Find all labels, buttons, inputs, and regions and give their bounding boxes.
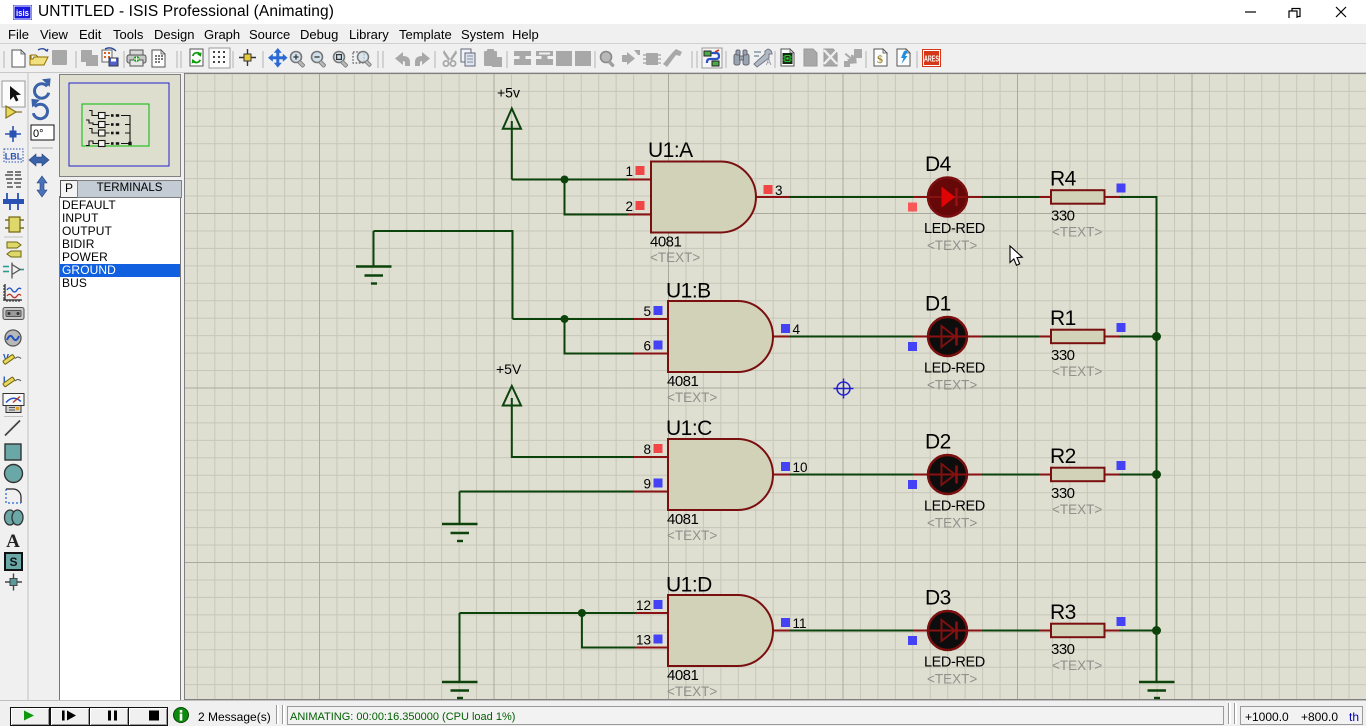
svg-text:<TEXT>: <TEXT> — [667, 684, 717, 699]
resistor R4 — [1039, 168, 1119, 240]
svg-text:D1: D1 — [925, 293, 951, 316]
wire D4 to R4 — [982, 196, 1039, 198]
svg-text:D4: D4 — [925, 153, 952, 176]
svg-text:R4: R4 — [1050, 168, 1077, 191]
svg-text:10: 10 — [793, 460, 808, 475]
wire row1 node to pin1 — [512, 179, 628, 181]
left tool column — [0, 73, 28, 700]
svg-text:2: 2 — [625, 199, 633, 214]
LED D3 (off) — [913, 587, 985, 687]
pin 1 label + state — [625, 164, 644, 179]
svg-text:+5v: +5v — [497, 85, 520, 101]
svg-text:U1:C: U1:C — [666, 417, 712, 440]
pin 5 label + state — [643, 304, 662, 319]
svg-text:isis: isis — [16, 8, 29, 18]
resistor R1 — [1039, 307, 1119, 379]
power terminal +5V (row 3) — [496, 361, 522, 406]
AND gate U1:D (4081) — [635, 574, 790, 700]
AND gate U1:B (4081) — [634, 280, 790, 406]
svg-text:330: 330 — [1051, 485, 1075, 502]
junction node R1/bus — [1152, 332, 1161, 341]
wire D1 to R1 — [982, 336, 1039, 338]
LED D1 (off) — [913, 293, 985, 393]
svg-text:<TEXT>: <TEXT> — [1052, 225, 1102, 240]
svg-text:A: A — [6, 531, 20, 552]
wire +5V to pin8 — [512, 406, 634, 458]
svg-text:330: 330 — [1051, 641, 1075, 658]
svg-text:U1:A: U1:A — [648, 139, 693, 162]
svg-text:330: 330 — [1051, 208, 1075, 225]
status bar — [0, 700, 1366, 726]
svg-text:12: 12 — [636, 598, 651, 613]
svg-text:LED-RED: LED-RED — [924, 361, 985, 377]
top toolbar — [0, 44, 1366, 73]
svg-text:LED-RED: LED-RED — [924, 499, 985, 515]
ground (row 3) — [442, 492, 478, 542]
svg-text:LBL: LBL — [5, 152, 23, 162]
svg-text:6: 6 — [643, 339, 651, 354]
ground (row 1) — [356, 231, 392, 284]
svg-text:U1:D: U1:D — [666, 574, 712, 597]
svg-text:S: S — [9, 555, 17, 569]
svg-text:8: 8 — [643, 442, 651, 457]
svg-text:4: 4 — [793, 322, 801, 337]
power terminal +5v (row 1) — [497, 85, 521, 129]
wire D3 to R3 — [982, 630, 1039, 632]
svg-text:3: 3 — [775, 183, 783, 198]
wire R3 to bus — [1119, 630, 1157, 632]
mouse cursor — [1010, 246, 1022, 265]
svg-text:1: 1 — [625, 164, 633, 179]
D3 anode state square — [908, 636, 917, 645]
wire +5v down to row1 node — [511, 129, 513, 180]
svg-text:4081: 4081 — [667, 667, 699, 684]
svg-text:R3: R3 — [1050, 601, 1076, 624]
svg-text:+5V: +5V — [496, 361, 522, 377]
D1 anode state square — [908, 342, 917, 351]
svg-text:R1: R1 — [1050, 307, 1076, 330]
svg-text:<TEXT>: <TEXT> — [927, 378, 977, 393]
junction node row2 — [561, 315, 569, 323]
junction node row4 — [578, 609, 586, 617]
ground (bus bottom right) — [1139, 682, 1175, 698]
wire R2 to bus — [1119, 474, 1157, 476]
resistor R2 — [1039, 445, 1119, 517]
sheet origin marker — [834, 379, 854, 399]
svg-text:<TEXT>: <TEXT> — [1052, 658, 1102, 673]
svg-text:<TEXT>: <TEXT> — [1052, 364, 1102, 379]
window title bar — [0, 0, 1366, 24]
pin 4 label + state — [781, 322, 801, 337]
AND gate U1:A (4081) — [628, 139, 790, 265]
svg-text:ARES: ARES — [924, 55, 939, 64]
D2 anode state square — [908, 480, 917, 489]
svg-text:<TEXT>: <TEXT> — [650, 250, 700, 265]
svg-text:<TEXT>: <TEXT> — [667, 390, 717, 405]
wire ground row1 to U1:B inputs — [374, 231, 513, 319]
right vertical bus wire — [1156, 196, 1158, 682]
junction node R3/bus — [1152, 626, 1161, 635]
svg-text:D3: D3 — [925, 587, 951, 610]
svg-text:D2: D2 — [925, 431, 951, 454]
wire row1 branch to pin2 — [565, 180, 629, 215]
svg-text:4081: 4081 — [650, 234, 682, 251]
pin 9 label + state — [643, 477, 662, 492]
object selector header + list — [59, 196, 181, 702]
pin 8 label + state — [643, 442, 662, 457]
pin 11 label + state — [781, 616, 807, 631]
svg-text:11: 11 — [793, 616, 807, 631]
wire U1:D output to D3 — [788, 630, 913, 632]
svg-text:<TEXT>: <TEXT> — [927, 238, 977, 253]
LED D2 (off) — [913, 431, 985, 531]
pin 6 label + state — [643, 339, 662, 354]
wire R4 to right bus — [1119, 196, 1158, 198]
svg-text:4081: 4081 — [667, 373, 699, 390]
junction node row1 — [561, 176, 569, 184]
R2 state square — [1117, 461, 1126, 470]
svg-text:5: 5 — [643, 304, 651, 319]
wire R1 to bus — [1119, 336, 1157, 338]
pin 3 label + state — [764, 183, 783, 198]
junction node R2/bus — [1152, 470, 1161, 479]
wire row4 branch to pin13 — [582, 613, 635, 648]
ground (row 4) — [442, 613, 478, 698]
svg-text:330: 330 — [1051, 347, 1075, 364]
pin 2 label + state — [625, 199, 644, 214]
R3 state square — [1117, 617, 1126, 626]
pin 12 label + state — [636, 598, 663, 613]
svg-text:<TEXT>: <TEXT> — [1052, 502, 1102, 517]
svg-text:0°: 0° — [33, 128, 44, 140]
svg-text:4081: 4081 — [667, 511, 699, 528]
svg-text:<TEXT>: <TEXT> — [927, 672, 977, 687]
svg-text:LED-RED: LED-RED — [924, 221, 985, 237]
pin 10 label + state — [781, 460, 808, 475]
AND gate U1:C (4081) — [634, 417, 790, 543]
wire to pin5 — [513, 318, 635, 320]
pin 13 label + state — [636, 633, 663, 648]
svg-text:LED-RED: LED-RED — [924, 655, 985, 671]
D4 anode state square — [908, 203, 917, 212]
R4 state square — [1117, 184, 1126, 193]
svg-text:$: $ — [877, 52, 883, 66]
svg-text:<TEXT>: <TEXT> — [927, 516, 977, 531]
wire D2 to R2 — [982, 474, 1039, 476]
wire ground row4 to pin12 — [460, 612, 636, 614]
resistor R3 — [1039, 601, 1119, 673]
wire U1:A output to D4 — [788, 196, 913, 198]
svg-text:13: 13 — [636, 633, 651, 648]
wire U1:C output to D2 — [788, 474, 913, 476]
svg-text:U1:B: U1:B — [666, 280, 711, 303]
svg-text:A: A — [766, 58, 772, 67]
wire U1:B output to D1 — [788, 336, 913, 338]
wire row2 branch to pin6 — [565, 319, 635, 354]
wire ground row3 to pin9 — [460, 491, 635, 493]
menu bar — [0, 24, 1366, 44]
rotate column — [28, 73, 58, 700]
svg-text:<TEXT>: <TEXT> — [667, 528, 717, 543]
overview panel — [59, 74, 181, 177]
svg-text:9: 9 — [643, 477, 651, 492]
svg-text:R2: R2 — [1050, 445, 1076, 468]
LED D4 (on) — [913, 153, 985, 253]
R1 state square — [1117, 323, 1126, 332]
schematic editing area — [184, 73, 1366, 700]
